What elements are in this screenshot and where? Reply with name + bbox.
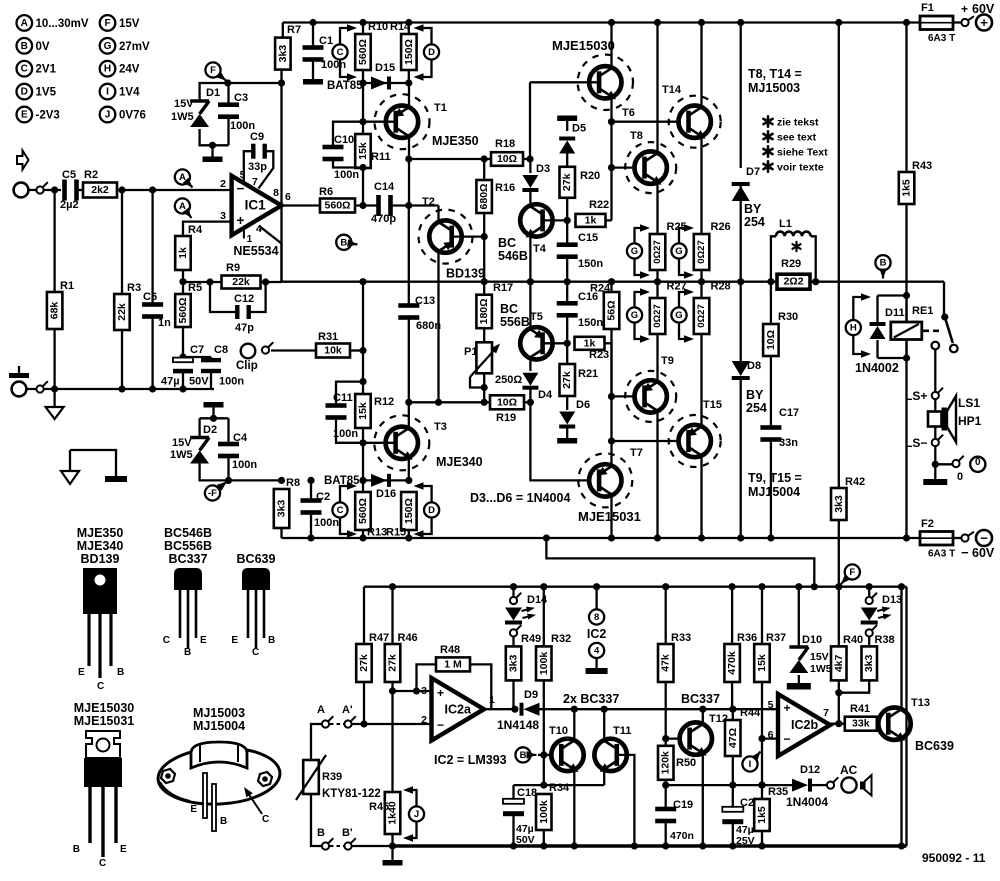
svg-text:2k2: 2k2 bbox=[91, 184, 109, 196]
svg-text:150Ω: 150Ω bbox=[403, 39, 415, 65]
node rail R33 bbox=[662, 583, 669, 590]
connector D12 bbox=[827, 782, 834, 789]
svg-text:+: + bbox=[980, 15, 988, 30]
svg-text:254: 254 bbox=[746, 401, 767, 415]
capacitor C5 2u2 bbox=[62, 180, 67, 201]
wire T13 collector bbox=[900, 587, 902, 709]
wire D7 to rail bbox=[740, 186, 742, 282]
svg-text:15k: 15k bbox=[756, 654, 768, 672]
wire R45 column bbox=[391, 691, 393, 792]
node T10 rail bbox=[571, 842, 578, 849]
svg-text:47Ω: 47Ω bbox=[727, 728, 739, 748]
wire T10 base bbox=[538, 754, 560, 756]
AC terminal bbox=[841, 778, 856, 793]
node -rail D8 bbox=[737, 534, 744, 541]
wire R5 to C7 node bbox=[182, 327, 184, 357]
svg-text:2: 2 bbox=[220, 178, 226, 190]
svg-text:B: B bbox=[21, 41, 28, 52]
wire R25 to rail bbox=[656, 270, 658, 282]
svg-text:10...30mV: 10...30mV bbox=[36, 18, 89, 30]
wire IC2b out bbox=[828, 723, 845, 725]
wire R23 right bbox=[605, 342, 612, 344]
node D15 left bbox=[359, 79, 366, 86]
node C14 right bbox=[405, 202, 412, 209]
svg-text:C14: C14 bbox=[374, 181, 395, 193]
node C2 bottom bbox=[307, 534, 314, 541]
svg-text:60V: 60V bbox=[972, 546, 995, 560]
svg-text:7: 7 bbox=[823, 707, 829, 719]
svg-text:15k: 15k bbox=[357, 402, 369, 420]
wire T2 emitter bbox=[437, 251, 439, 402]
package TO-3 hole left bbox=[161, 769, 175, 783]
wire R38 bottom bbox=[839, 680, 869, 692]
svg-text:1W5: 1W5 bbox=[171, 111, 194, 123]
capacitor C10 100n bbox=[323, 145, 344, 150]
node T12 collector bbox=[699, 706, 706, 713]
svg-text:15V: 15V bbox=[810, 651, 829, 663]
resistor R13 560 bbox=[355, 492, 371, 530]
package TO-92 leads 2 bbox=[247, 590, 250, 638]
wire T11 emitter bbox=[603, 770, 605, 785]
svg-text:560Ω: 560Ω bbox=[177, 298, 189, 324]
protection rail bbox=[364, 586, 907, 588]
wire rail to switch bbox=[943, 282, 945, 315]
svg-text:B: B bbox=[117, 667, 124, 678]
svg-text:R40: R40 bbox=[843, 634, 863, 646]
svg-text:R6: R6 bbox=[319, 186, 333, 198]
svg-text:27k: 27k bbox=[561, 371, 573, 389]
svg-text:15k: 15k bbox=[357, 142, 369, 160]
resistor R4 1k bbox=[175, 236, 191, 270]
package TO-92 body 1 bbox=[174, 568, 202, 590]
wire R48 left bbox=[417, 664, 437, 691]
ground triangle below R1 bbox=[53, 389, 55, 407]
diode D8 BY254 bbox=[732, 361, 750, 376]
wire T5 collector to D4 bbox=[529, 358, 531, 371]
svg-text:-F: -F bbox=[208, 488, 217, 499]
svg-text:22k: 22k bbox=[116, 303, 128, 321]
svg-text:A: A bbox=[21, 18, 28, 29]
svg-text:Clip: Clip bbox=[236, 360, 258, 372]
svg-text:R17: R17 bbox=[493, 282, 513, 294]
svg-text:B: B bbox=[73, 844, 80, 855]
probe B to T10 base bbox=[515, 747, 530, 762]
wire T8 base bbox=[612, 166, 645, 168]
wire R42 bottom bbox=[838, 520, 840, 587]
svg-text:5: 5 bbox=[768, 699, 774, 711]
svg-text:T2: T2 bbox=[422, 196, 435, 208]
node T10 base bbox=[540, 751, 547, 758]
capacitor C20 47u bbox=[722, 807, 743, 812]
AC speaker icon bbox=[860, 782, 865, 790]
svg-text:3k3: 3k3 bbox=[833, 495, 845, 513]
wire A to R39 bbox=[311, 724, 322, 760]
svg-text:D2: D2 bbox=[203, 424, 217, 436]
package TO-3 hole right bbox=[258, 772, 272, 786]
node T1 base bbox=[359, 118, 366, 125]
package TO-3 can bbox=[191, 742, 247, 768]
wire C9 left to pin5 bbox=[244, 151, 253, 183]
svg-text:MJE15030: MJE15030 bbox=[552, 38, 615, 53]
diode D3 bbox=[522, 175, 538, 188]
node prot rail R42 bbox=[835, 583, 842, 590]
wire R40 bottom bbox=[838, 680, 840, 723]
svg-text:6: 6 bbox=[768, 729, 774, 741]
svg-text:D9: D9 bbox=[524, 689, 538, 701]
wire T9 collector bbox=[656, 411, 658, 538]
IC2 pin8 circle bbox=[595, 587, 597, 609]
resistor R33 47k bbox=[658, 644, 674, 682]
svg-text:F: F bbox=[104, 18, 110, 29]
svg-text:556B: 556B bbox=[500, 315, 530, 329]
+60V terminal bbox=[976, 15, 992, 31]
svg-text:R12: R12 bbox=[374, 396, 394, 408]
svg-text:R15: R15 bbox=[386, 527, 406, 539]
node R47 pin2 bbox=[360, 720, 367, 727]
wire R4 to node bbox=[182, 270, 184, 282]
svg-text:BAT85: BAT85 bbox=[327, 80, 363, 92]
node R4 R5 R9 bbox=[179, 278, 186, 285]
node C4 bottom bbox=[225, 477, 232, 484]
node sense prot rail bbox=[811, 583, 818, 590]
transistor T10 BC337 bbox=[551, 739, 583, 771]
node rail D14 bbox=[510, 583, 517, 590]
resistor R47 27k bbox=[356, 644, 372, 682]
probe H across relay bbox=[846, 320, 861, 335]
wire C20 stems bbox=[732, 785, 734, 808]
svg-text:BC: BC bbox=[500, 302, 518, 316]
svg-text:IC2: IC2 bbox=[587, 627, 607, 641]
svg-text:H: H bbox=[850, 323, 857, 334]
node T3 base bbox=[359, 439, 366, 446]
svg-text:E: E bbox=[78, 667, 85, 678]
svg-text:C: C bbox=[337, 505, 344, 516]
node R3 top bbox=[118, 186, 125, 193]
legend F = 15V bbox=[100, 15, 116, 31]
wire T9 emitter bbox=[656, 334, 658, 382]
ground bar below D10 bbox=[787, 683, 811, 690]
wire C11 bottom loop bbox=[336, 418, 363, 443]
svg-text:2: 2 bbox=[421, 714, 427, 726]
capacitor C3 100n bbox=[218, 102, 239, 107]
D13 connector bottom bbox=[866, 629, 873, 636]
svg-text:−: − bbox=[437, 718, 444, 732]
svg-text:1k5: 1k5 bbox=[756, 806, 768, 824]
svg-text:100k: 100k bbox=[538, 800, 550, 824]
resistor R5 560 bbox=[175, 294, 191, 327]
node rail R43 bbox=[903, 19, 910, 26]
resistor R14 150 bbox=[401, 34, 417, 70]
wire T13 emitter bbox=[900, 739, 902, 847]
resistor R8 3k3 bbox=[274, 489, 290, 528]
svg-text:E: E bbox=[120, 844, 127, 855]
svg-text:R5: R5 bbox=[188, 282, 202, 294]
fuse F2 bbox=[920, 532, 953, 546]
wire T3 collector up bbox=[408, 402, 410, 428]
svg-text:2µ2: 2µ2 bbox=[60, 199, 79, 211]
wire T6 base bbox=[530, 81, 599, 83]
svg-text:T14: T14 bbox=[662, 84, 682, 96]
wire D8 stem top bbox=[740, 282, 742, 362]
svg-text:−: − bbox=[784, 732, 791, 746]
svg-text:27k: 27k bbox=[561, 173, 573, 191]
capacitor C4 100n bbox=[218, 442, 239, 447]
wire T7 emitter column bbox=[610, 343, 612, 465]
svg-text:B: B bbox=[220, 816, 227, 827]
svg-text:BC556B: BC556B bbox=[164, 539, 212, 553]
wire R34 top bbox=[514, 784, 605, 786]
svg-text:254: 254 bbox=[744, 215, 765, 229]
wire T1 collector down bbox=[408, 136, 410, 206]
svg-text:15V: 15V bbox=[172, 437, 192, 449]
wire R22 right bbox=[606, 219, 612, 221]
ground bar above D5 bbox=[557, 116, 577, 122]
note see text bbox=[767, 131, 770, 141]
svg-text:100k: 100k bbox=[538, 652, 550, 676]
wire R50 bottom bbox=[665, 780, 667, 807]
svg-text:T1: T1 bbox=[434, 102, 447, 114]
probe B floating bbox=[336, 235, 351, 250]
node C18 rail bbox=[510, 842, 517, 849]
probe F protection bbox=[845, 564, 860, 579]
svg-text:0V76: 0V76 bbox=[119, 110, 146, 122]
dashes A Aprime bbox=[330, 723, 344, 725]
svg-text:G: G bbox=[675, 310, 682, 321]
svg-text:T8: T8 bbox=[630, 130, 643, 142]
clip jack bbox=[241, 344, 256, 359]
svg-text:T8, T14 =: T8, T14 = bbox=[748, 67, 802, 81]
svg-text:T6: T6 bbox=[622, 107, 635, 119]
terminal Bprime bbox=[344, 842, 351, 849]
node rail IC2 pin8 bbox=[593, 583, 600, 590]
wire IC2a out bbox=[482, 708, 515, 710]
svg-text:B: B bbox=[184, 647, 191, 658]
svg-text:+: + bbox=[437, 686, 444, 700]
chassis ground triangle bbox=[61, 471, 79, 484]
wire R35 bottom bbox=[761, 831, 763, 846]
svg-text:MJ15004: MJ15004 bbox=[193, 719, 245, 733]
svg-text:C10: C10 bbox=[334, 134, 354, 146]
svg-text:680Ω: 680Ω bbox=[478, 184, 490, 210]
resistor R37 15k bbox=[754, 644, 770, 682]
resistor R41 33k bbox=[845, 717, 877, 731]
svg-text:3k3: 3k3 bbox=[277, 45, 289, 63]
resistor R17 180 bbox=[476, 295, 492, 329]
svg-text:100n: 100n bbox=[230, 120, 255, 132]
node rail R26 bbox=[698, 278, 705, 285]
node -rail R15 bbox=[405, 534, 412, 541]
zener D10 bbox=[789, 645, 808, 649]
P1 arrow bbox=[470, 347, 497, 377]
svg-text:C18: C18 bbox=[517, 787, 537, 799]
node rail R36 bbox=[729, 583, 736, 590]
node T9 base bbox=[608, 393, 615, 400]
transistor T15 bbox=[669, 415, 721, 467]
wire R17 to P1 bbox=[483, 328, 485, 342]
svg-text:0Ω27: 0Ω27 bbox=[696, 240, 707, 263]
package TO-92 body 2 bbox=[242, 568, 270, 590]
resistor R42 3k3 bbox=[831, 488, 847, 520]
wire C3 stems bbox=[227, 83, 229, 104]
node T10 collector bbox=[571, 706, 578, 713]
svg-text:KTY81-122: KTY81-122 bbox=[322, 788, 381, 800]
svg-text:1V5: 1V5 bbox=[36, 87, 57, 99]
node sense -rail bbox=[543, 534, 550, 541]
probe J across R45 bbox=[409, 806, 424, 821]
svg-text:C6: C6 bbox=[143, 291, 157, 303]
wire R27 to rail bbox=[656, 282, 658, 298]
wire402 bbox=[409, 401, 490, 403]
resistor R38 3k3 bbox=[862, 646, 878, 680]
svg-text:T3: T3 bbox=[434, 421, 447, 433]
capacitor C19 470n bbox=[655, 807, 676, 812]
wire D5 top stub bbox=[566, 121, 568, 132]
node relay top bbox=[903, 292, 910, 299]
node D3 top bbox=[526, 155, 533, 162]
svg-text:I: I bbox=[749, 759, 752, 770]
+60V rail bbox=[283, 21, 920, 23]
svg-text:D7: D7 bbox=[746, 166, 760, 178]
wire IC1 pin4 to negative column bbox=[259, 226, 282, 282]
node pin3 R46 bbox=[389, 687, 396, 694]
svg-text:LS+: LS+ bbox=[905, 389, 927, 403]
wire T1 collector node bbox=[409, 158, 530, 160]
node R22 left bbox=[564, 217, 571, 224]
svg-text:3k3: 3k3 bbox=[863, 654, 875, 672]
resistor R23 1k bbox=[575, 337, 605, 350]
package TO-3 pin B bbox=[212, 784, 216, 831]
ground rail bbox=[26, 388, 214, 390]
diode D12 1N4004 bbox=[792, 779, 808, 792]
wire R15 to -rail bbox=[408, 530, 410, 538]
node wire159 left bbox=[405, 155, 412, 162]
svg-text:C: C bbox=[99, 858, 106, 869]
node rail R32 bbox=[540, 583, 547, 590]
svg-text:C: C bbox=[262, 814, 269, 825]
wire D10 stem bbox=[798, 587, 800, 647]
wire T1 emitter up bbox=[408, 83, 410, 108]
svg-text:F: F bbox=[210, 65, 216, 76]
svg-text:47k: 47k bbox=[660, 654, 672, 672]
svg-text:15V: 15V bbox=[174, 98, 194, 110]
svg-text:see text: see text bbox=[777, 132, 817, 144]
svg-text:IC2 = LM393: IC2 = LM393 bbox=[434, 753, 507, 767]
svg-text:F: F bbox=[849, 567, 855, 578]
node R6 R11 bbox=[359, 202, 366, 209]
svg-text:BY: BY bbox=[744, 202, 762, 216]
wire pin6 column bbox=[762, 737, 779, 739]
wire D5 to R20 bbox=[566, 154, 568, 167]
resistor R36 470k bbox=[724, 644, 740, 682]
probe G across R27 bbox=[627, 307, 642, 322]
wire T15 collector bbox=[700, 456, 702, 538]
svg-text:E: E bbox=[231, 635, 238, 646]
svg-text:A: A bbox=[317, 704, 325, 716]
output rail bbox=[282, 281, 945, 283]
capacitor C13 680n bbox=[398, 303, 419, 308]
node rail R37 bbox=[758, 583, 765, 590]
wire R42 top bbox=[838, 23, 840, 489]
legend D = 1V5 bbox=[17, 84, 33, 100]
relay switch pivot bbox=[941, 313, 948, 320]
svg-text:D16: D16 bbox=[376, 488, 396, 500]
svg-text:33n: 33n bbox=[779, 437, 798, 449]
wire R31 to column bbox=[350, 349, 363, 351]
ground bar below D1 bbox=[211, 145, 213, 156]
resistor R21 27k bbox=[560, 364, 576, 396]
clip connector bbox=[262, 346, 269, 353]
node R44 C20 bbox=[729, 782, 736, 789]
svg-text:R32: R32 bbox=[551, 633, 571, 645]
wire R2 to IC1 pin2 bbox=[117, 189, 232, 191]
svg-text:T9: T9 bbox=[661, 355, 674, 367]
node T15 base bbox=[608, 437, 615, 444]
svg-text:IC2a: IC2a bbox=[445, 702, 472, 716]
wire R33 down bbox=[665, 682, 667, 746]
svg-text:470k: 470k bbox=[726, 651, 738, 675]
svg-text:MJE15030: MJE15030 bbox=[74, 701, 135, 715]
pot P1 250 bbox=[476, 342, 492, 373]
node C2 top bbox=[307, 477, 314, 484]
probe D across R15 bbox=[424, 502, 439, 517]
node rail T6 bbox=[608, 19, 615, 26]
wire T3 base bbox=[363, 442, 396, 444]
thermistor R39 KTY81 bbox=[303, 760, 319, 794]
node speaker bottom bbox=[932, 461, 939, 468]
node rail R14 bbox=[405, 19, 412, 26]
capacitor C6 1n bbox=[142, 302, 163, 307]
D14 connector bottom bbox=[510, 629, 517, 636]
svg-text:T4: T4 bbox=[533, 243, 547, 255]
wire relay top bbox=[878, 294, 907, 296]
svg-text:0Ω27: 0Ω27 bbox=[696, 304, 707, 327]
wire T15 base bbox=[612, 440, 689, 442]
svg-text:1W5: 1W5 bbox=[170, 449, 193, 461]
connector LS+ bbox=[932, 392, 939, 399]
connector LS- bbox=[932, 439, 939, 446]
node T13 emitter rail bbox=[898, 842, 905, 849]
svg-text:BC639: BC639 bbox=[237, 552, 276, 566]
wire relay bottom bbox=[878, 357, 907, 359]
svg-text:D4: D4 bbox=[538, 389, 553, 401]
diode D4 bbox=[522, 373, 538, 386]
svg-text:A: A bbox=[179, 201, 186, 212]
probe D across R14 bbox=[424, 44, 439, 59]
svg-text:R48: R48 bbox=[440, 644, 460, 656]
resistor R6 560 bbox=[320, 199, 355, 213]
svg-text:R37: R37 bbox=[766, 632, 786, 644]
svg-text:LS−: LS− bbox=[905, 436, 927, 450]
legend A = 10...30mV bbox=[17, 15, 33, 31]
wire D8 to -rail bbox=[740, 380, 742, 538]
wire R12 to T3 base bbox=[362, 428, 364, 443]
svg-text:546B: 546B bbox=[498, 249, 528, 263]
svg-text:T5: T5 bbox=[530, 311, 543, 323]
svg-text:BD139: BD139 bbox=[446, 267, 485, 281]
transistor T8 bbox=[625, 142, 676, 193]
svg-text:100n: 100n bbox=[314, 517, 339, 529]
node T13 collector rail bbox=[898, 583, 905, 590]
terminal Aprime bbox=[344, 720, 351, 727]
node rail R10 bbox=[359, 19, 366, 26]
wire T15 emitter bbox=[700, 334, 702, 426]
svg-text:C3: C3 bbox=[234, 92, 248, 104]
svg-text:MJE340: MJE340 bbox=[77, 539, 124, 553]
wire C10 bottom loop bbox=[333, 160, 363, 168]
wire D7 stem top bbox=[740, 23, 742, 169]
-60V terminal bbox=[976, 530, 992, 546]
wire T12 base bbox=[666, 737, 688, 739]
